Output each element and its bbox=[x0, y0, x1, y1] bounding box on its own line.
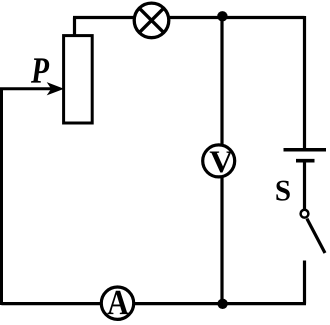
wire: battery to switch bbox=[303, 161, 306, 210]
battery cell: short plate (-) bbox=[296, 159, 315, 163]
wire: left vertical bbox=[0, 89, 3, 305]
battery cell: long plate (+) bbox=[284, 148, 327, 152]
switch S: open blade bbox=[307, 219, 325, 253]
wire: rheostat top stub bbox=[73, 18, 76, 37]
wire: voltmeter branch vertical bbox=[220, 18, 223, 305]
junction node: top (lamp/voltmeter/battery) bbox=[217, 11, 227, 21]
voltmeter V bbox=[203, 145, 235, 177]
wiper arrowhead bbox=[48, 83, 63, 94]
label S (switch) bbox=[276, 181, 289, 201]
label P (wiper) bbox=[31, 58, 49, 82]
switch S: pivot circle bbox=[301, 210, 309, 218]
wire: switch to bottom corner bbox=[303, 261, 306, 304]
ammeter A bbox=[101, 287, 133, 319]
wire: top horizontal bbox=[73, 16, 305, 19]
resistor: rheostat rectangle bbox=[64, 36, 93, 123]
wire: bottom horizontal bbox=[1, 302, 306, 305]
wire: right vertical upper (top corner to battery) bbox=[303, 16, 306, 150]
lamp L (circle with X) bbox=[134, 3, 169, 38]
wire: wiper horizontal to arrow bbox=[0, 87, 56, 90]
junction node: bottom (ammeter/voltmeter/switch) bbox=[217, 299, 227, 309]
